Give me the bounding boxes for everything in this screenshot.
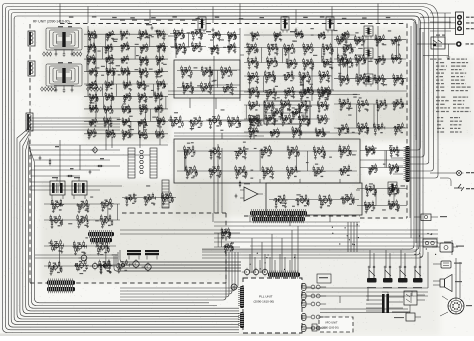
transistor Q30 [159, 43, 162, 48]
wire [111, 130, 113, 148]
label [89, 56, 91, 57]
resistor R364 [291, 70, 293, 76]
resistor R275 [313, 146, 315, 152]
label [382, 43, 384, 44]
label [392, 165, 394, 166]
label [270, 131, 272, 132]
resistor R433 [347, 59, 349, 65]
junction [141, 47, 142, 48]
resistor R365 [300, 76, 302, 82]
label [284, 101, 287, 102]
wire [375, 38, 380, 41]
resistor R198 [145, 130, 147, 135]
label [189, 91, 191, 92]
resistor R236 [201, 82, 203, 88]
resistor R369 [320, 75, 322, 81]
resistor R398 [325, 100, 327, 106]
wire [341, 169, 349, 172]
label [293, 68, 295, 69]
wire [244, 118, 330, 120]
resistor R161 [104, 105, 106, 110]
ground [231, 92, 234, 95]
label [123, 120, 125, 121]
resistor R456 [402, 78, 404, 84]
capacitor C85 [105, 121, 108, 125]
label [124, 84, 126, 85]
capacitor C97 [157, 134, 160, 138]
resistor R142 [106, 96, 108, 101]
capacitor C1 [89, 170, 92, 174]
wire [92, 57, 95, 59]
resistor R357 [256, 71, 258, 77]
resistor R438 [376, 59, 378, 65]
label [228, 120, 231, 121]
transistor Q6 [251, 129, 255, 135]
transistor Q78 [210, 117, 217, 125]
wire [293, 111, 296, 114]
transistor Q34 [142, 57, 145, 62]
label [398, 44, 400, 45]
capacitor C217 [341, 80, 344, 84]
wire [283, 75, 295, 77]
wire [269, 257, 271, 273]
wire [8, 13, 239, 328]
wire [222, 70, 231, 73]
wire [213, 56, 215, 140]
junction [123, 108, 124, 109]
transistor Q39 [141, 69, 144, 74]
label [159, 31, 161, 32]
wire [86, 58, 95, 60]
label [162, 124, 164, 125]
label [107, 132, 109, 133]
resistor R21 [277, 128, 279, 133]
svg-text:RF UNIT (2090-1410-00): RF UNIT (2090-1410-00) [33, 20, 70, 24]
label [144, 138, 146, 139]
junction [235, 151, 236, 152]
label [400, 83, 402, 84]
capacitor C220 [376, 80, 379, 84]
label [159, 118, 161, 119]
capacitor C27 [275, 35, 278, 39]
resistor R389 [272, 101, 274, 107]
label [128, 125, 130, 126]
transistor Q118 [251, 88, 255, 94]
label [139, 133, 141, 134]
resistor R368 [309, 76, 311, 82]
capacitor C142 [237, 172, 240, 176]
capacitor C21 [217, 48, 220, 52]
capacitor C109 [223, 72, 226, 76]
resistor R350 [323, 62, 325, 68]
label [158, 69, 160, 70]
ground [93, 62, 96, 65]
resistor R188 [87, 128, 89, 133]
wire [161, 95, 163, 97]
wire [155, 133, 164, 135]
junction [249, 105, 250, 106]
wire [254, 130, 259, 133]
label [300, 196, 303, 197]
transistor Q9 [318, 129, 322, 135]
ground [157, 50, 160, 53]
label [246, 41, 351, 66]
wire [248, 104, 260, 106]
resistor R346 [304, 63, 306, 69]
wire [28, 123, 120, 125]
wire [248, 118, 260, 120]
wire [211, 150, 216, 153]
capacitor C184 [286, 92, 289, 96]
wire [274, 35, 283, 37]
capacitor C105 [200, 47, 203, 51]
label [252, 128, 255, 129]
capacitor C112 [203, 88, 206, 92]
resistor R164 [128, 104, 130, 109]
label [329, 52, 331, 53]
resistor R436 [355, 54, 357, 60]
label [215, 32, 217, 33]
wire [270, 132, 281, 134]
wire [29, 144, 217, 306]
label [342, 76, 345, 77]
wire [208, 84, 240, 86]
transistor Q97 [276, 196, 283, 204]
ground [88, 38, 91, 41]
wire [30, 189, 100, 191]
capacitor C104 [193, 47, 196, 51]
label [145, 63, 147, 64]
capacitor C159 [305, 49, 308, 53]
wire [239, 28, 241, 60]
label [224, 68, 227, 69]
wire [244, 131, 330, 133]
wire [177, 70, 237, 72]
resistor R62 [94, 30, 96, 35]
resistor R115 [140, 71, 142, 76]
wire [59, 140, 61, 186]
wire [318, 34, 324, 36]
capacitor C139 [188, 172, 191, 176]
capacitor C74 [139, 97, 142, 101]
ground [129, 88, 132, 91]
resistor R294 [262, 166, 264, 172]
label [375, 77, 377, 78]
wire [251, 238, 253, 273]
resistor R394 [299, 105, 301, 111]
ground [340, 155, 343, 158]
resistor R277 [340, 150, 342, 156]
label [126, 62, 128, 63]
resistor R63 [88, 30, 90, 35]
transistor Q3 [392, 148, 396, 154]
wire [159, 33, 165, 35]
label [320, 115, 323, 116]
resistor R135 [163, 79, 165, 84]
resistor R91 [87, 54, 89, 59]
resistor R28 [315, 127, 317, 132]
wire [208, 47, 240, 49]
resistor R377 [285, 91, 287, 97]
capacitor C193 [299, 106, 302, 110]
resistor R185 [157, 116, 159, 121]
capacitor C29 [323, 35, 326, 39]
label [254, 52, 256, 53]
resistor R153 [160, 91, 162, 96]
label [91, 68, 93, 69]
wire [302, 47, 314, 49]
resistor R45 [321, 86, 323, 91]
capacitor C110 [184, 87, 187, 91]
resistor R10 [390, 146, 392, 151]
label [94, 88, 96, 89]
label [217, 38, 219, 39]
label [273, 66, 275, 67]
ground [146, 63, 149, 66]
wire [210, 71, 218, 88]
label [279, 38, 281, 39]
wire [318, 104, 328, 107]
resistor R323 [284, 43, 286, 49]
wire [5, 7, 433, 172]
label [287, 110, 305, 116]
wire [231, 34, 236, 36]
resistor R342 [276, 61, 278, 67]
ground [144, 100, 147, 103]
wire [30, 175, 80, 177]
resistor R408 [282, 118, 284, 124]
capacitor C94 [108, 134, 111, 138]
resistor R159 [105, 109, 107, 114]
junction [121, 59, 122, 60]
label [126, 37, 128, 38]
wire [180, 70, 192, 72]
resistor R298 [314, 171, 316, 177]
label [396, 75, 399, 76]
junction [323, 62, 324, 63]
wire [324, 47, 332, 50]
capacitor C65 [125, 85, 128, 89]
capacitor C155 [249, 48, 252, 52]
wire [249, 118, 256, 122]
label [151, 17, 156, 18]
label [271, 45, 274, 46]
resistor R79 [105, 47, 107, 52]
transistor Q14 [306, 87, 310, 93]
ground [217, 52, 220, 55]
capacitor C182 [267, 93, 270, 97]
wire [84, 46, 168, 48]
ground [330, 52, 333, 55]
wire [306, 287, 428, 289]
label [172, 16, 177, 17]
wire [89, 121, 95, 123]
wire [264, 104, 272, 107]
label [276, 33, 278, 34]
wire [281, 118, 293, 120]
resistor R110 [113, 71, 115, 76]
label [299, 118, 301, 119]
label [92, 95, 94, 96]
resistor R211 [176, 47, 178, 53]
wire [385, 151, 387, 168]
capacitor C199 [273, 118, 276, 122]
wire [400, 250, 402, 268]
junction [281, 104, 282, 105]
transistor Q105 [325, 45, 329, 51]
wire [30, 154, 150, 156]
ground [235, 157, 238, 160]
label [290, 167, 293, 168]
label [88, 45, 90, 46]
resistor R43 [322, 90, 324, 95]
ground [319, 80, 322, 83]
wire [137, 84, 146, 86]
label [123, 132, 125, 133]
junction [105, 47, 106, 48]
label [337, 38, 339, 39]
resistor R251 [239, 122, 241, 128]
wire [389, 253, 391, 268]
transistor Q85 [237, 148, 243, 155]
label [105, 108, 107, 109]
label [267, 102, 270, 103]
resistor R400 [326, 105, 328, 111]
capacitor C37 [163, 34, 166, 38]
capacitor C188 [251, 106, 254, 110]
transistor Q77 [192, 118, 199, 126]
ground [190, 127, 193, 130]
wire [100, 19, 416, 243]
label [249, 89, 251, 90]
label [209, 118, 212, 119]
ground [249, 96, 252, 99]
label [287, 108, 289, 109]
transistor Q135 [378, 36, 382, 42]
resistor R11 [369, 168, 371, 173]
resistor R102 [162, 55, 164, 60]
label [248, 125, 326, 135]
ground [266, 123, 269, 126]
capacitor C204 [325, 119, 328, 123]
resistor R209 [199, 28, 201, 34]
wire [459, 262, 461, 298]
label [368, 145, 392, 173]
ground [221, 76, 224, 79]
wire [244, 91, 332, 93]
resistor R349 [312, 63, 314, 69]
resistor R203 [156, 130, 158, 135]
transistor Q54 [141, 106, 144, 111]
wire [89, 96, 98, 98]
resistor R30 [213, 34, 215, 39]
wire [158, 58, 162, 60]
resistor R3 [49, 159, 51, 166]
label [145, 75, 147, 76]
label [187, 142, 356, 179]
transistor Q132 [320, 116, 324, 122]
resistor R118 [147, 71, 149, 76]
wire [312, 170, 325, 172]
label [282, 205, 285, 206]
wire [28, 120, 120, 122]
wire [105, 84, 114, 86]
wire [222, 87, 234, 89]
label [198, 37, 200, 38]
wire [355, 54, 362, 56]
resistor R171 [160, 104, 162, 109]
resistor R39 [233, 42, 235, 47]
label [343, 146, 346, 147]
label [298, 104, 300, 105]
transistor Q131 [301, 117, 305, 123]
resistor R193 [123, 133, 125, 138]
wire [210, 70, 213, 73]
ground [140, 51, 143, 54]
resistor R216 [199, 41, 201, 47]
transistor Q92 [237, 167, 243, 174]
resistor R50 [275, 35, 277, 40]
transistor Q109 [289, 60, 293, 66]
capacitor C127 [186, 152, 189, 156]
wire [180, 32, 181, 35]
label [310, 94, 312, 95]
wire [339, 169, 352, 171]
junction [186, 170, 187, 171]
label [320, 102, 323, 103]
ground [382, 83, 385, 86]
junction [340, 150, 341, 151]
resistor R181 [144, 118, 146, 123]
junction [299, 119, 300, 120]
resistor R449 [365, 78, 367, 84]
resistor R405 [273, 113, 275, 119]
label [208, 91, 210, 92]
resistor R123 [96, 84, 98, 89]
wire [340, 198, 354, 200]
resistor R68 [126, 30, 128, 35]
wire [390, 39, 402, 41]
transistor Q133 [339, 37, 343, 43]
wire [168, 119, 176, 121]
transistor Q10 [214, 32, 217, 37]
label [291, 96, 293, 97]
wire [201, 70, 213, 72]
wire [84, 71, 168, 73]
transistor Q50 [156, 93, 159, 98]
wire [249, 254, 251, 273]
wire [249, 215, 251, 222]
wire [88, 84, 97, 86]
label [108, 82, 110, 83]
wire [93, 96, 98, 98]
label [255, 123, 257, 124]
label [302, 116, 305, 117]
wire [353, 222, 355, 252]
junction [182, 70, 183, 71]
ground [111, 62, 114, 65]
label [183, 85, 185, 86]
resistor R319 [275, 43, 277, 49]
resistor R341 [267, 56, 269, 62]
label [212, 33, 214, 34]
wire [259, 260, 261, 273]
capacitor C123 [259, 121, 262, 125]
label [160, 111, 162, 112]
label [287, 88, 290, 89]
wire [214, 237, 438, 239]
resistor R300 [313, 166, 315, 172]
